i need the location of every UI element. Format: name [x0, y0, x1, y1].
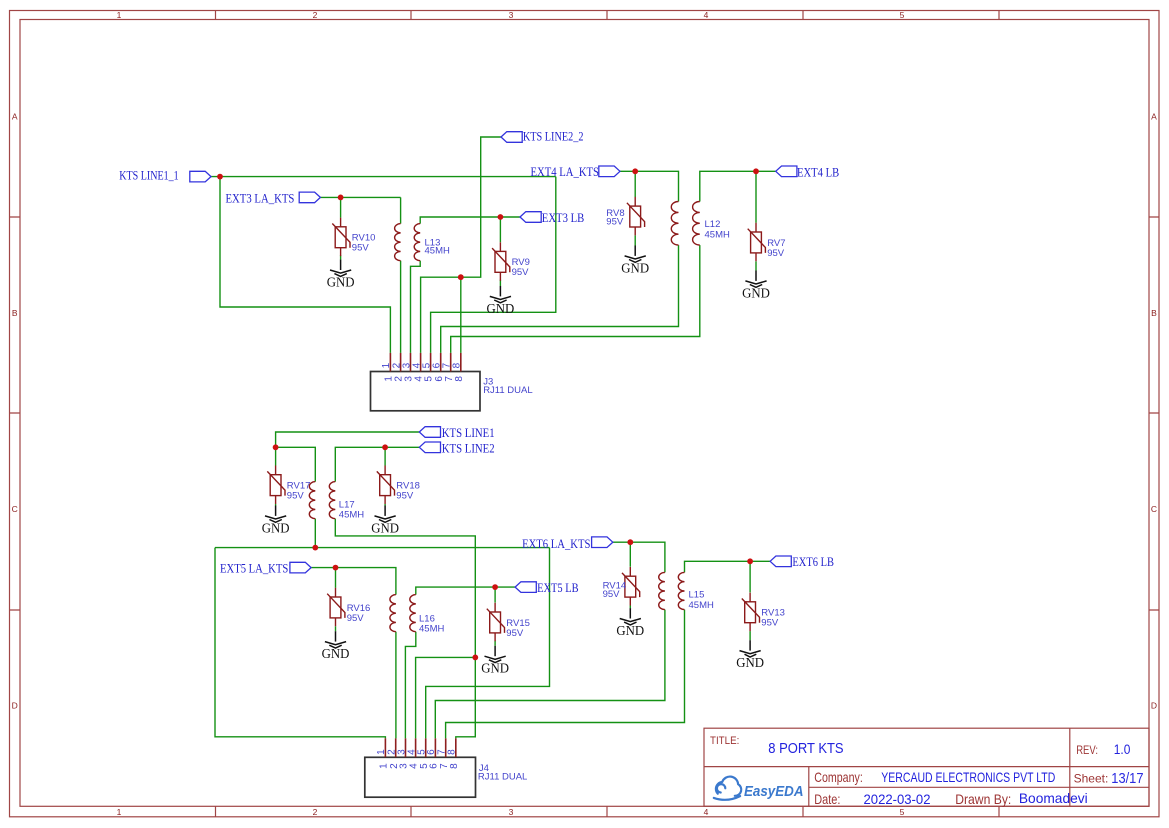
inductor L17 winding A: [309, 482, 315, 519]
ground RV7: [742, 271, 770, 301]
border column ticks bottom: [216, 806, 1000, 817]
wire net EXT3 LA_KTS: [320, 196, 400, 198]
connector J3 body: [371, 372, 481, 411]
net label KTS LINE1_1: [119, 167, 211, 182]
wire RV16 top stub: [335, 568, 337, 588]
junction KTS LINE2_2 / pin 8 branch: [458, 274, 464, 280]
ground RV15: [481, 646, 509, 676]
inductor L12 winding A: [671, 202, 678, 246]
svg-text:4: 4: [704, 807, 709, 817]
svg-text:EXT4 LA_KTS: EXT4 LA_KTS: [531, 164, 600, 179]
wire RV8 top stub: [634, 171, 636, 197]
wire net EXT5 LA_KTS: [311, 568, 396, 595]
wire L15 winding A to J4 pin 6: [435, 610, 665, 739]
label RV15 95V: [506, 618, 530, 639]
svg-text:95V: 95V: [767, 248, 785, 259]
label L13 45MH: [425, 237, 450, 256]
svg-text:EasyEDA: EasyEDA: [744, 784, 804, 800]
svg-text:Boomadevi: Boomadevi: [1019, 790, 1088, 806]
svg-text:EXT5 LB: EXT5 LB: [537, 580, 579, 595]
svg-text:95V: 95V: [606, 216, 624, 227]
inductor L16 winding A: [390, 595, 396, 632]
wire RV7 to ground: [755, 261, 757, 270]
svg-text:45MH: 45MH: [339, 510, 364, 521]
wire L17 winding B down to J4 pin 8 column: [335, 519, 475, 739]
net label EXT3 LA_KTS: [226, 190, 321, 205]
svg-text:4: 4: [704, 10, 709, 20]
junction J4 pin 4 / pin 8 branch: [472, 655, 478, 661]
wire RV8 to ground: [634, 235, 636, 245]
svg-text:RJ11 DUAL: RJ11 DUAL: [483, 385, 532, 396]
inductor L15 winding A: [659, 572, 665, 609]
label RV8 95V: [606, 208, 624, 228]
svg-text:A: A: [1151, 112, 1157, 122]
svg-text:Sheet:: Sheet:: [1074, 772, 1109, 785]
label RV7 95V: [767, 238, 785, 259]
svg-text:3: 3: [509, 10, 514, 20]
junction KTS LINE2 / RV18: [382, 444, 388, 450]
varistor RV9: [492, 242, 510, 280]
wire junction branch to J4 pin 4: [416, 657, 476, 738]
wire RV14 to ground: [629, 606, 631, 609]
inductor L13 winding B: [414, 224, 420, 261]
inductor L12 winding B: [693, 202, 700, 246]
svg-text:5: 5: [900, 807, 905, 817]
wire KTS LINE1_1 branch to J3 pin 5: [431, 177, 556, 353]
wire RV13 to ground: [749, 631, 751, 640]
svg-text:1.0: 1.0: [1114, 742, 1131, 757]
border row ticks right: [1149, 217, 1159, 610]
connector J3 pin stubs: [390, 353, 460, 372]
svg-text:3: 3: [509, 807, 514, 817]
svg-text:45MH: 45MH: [689, 600, 714, 611]
wire RV9 to ground: [499, 280, 501, 286]
svg-text:95V: 95V: [352, 243, 370, 254]
wire net KTS LINE1_1 main run: [211, 176, 556, 178]
wire RV14 top stub: [629, 542, 631, 567]
svg-text:2: 2: [313, 10, 318, 20]
varistor RV7: [748, 223, 766, 261]
wire net EXT5 LB: [416, 587, 515, 595]
wire RV15 to ground: [494, 641, 496, 646]
svg-text:EXT6 LB: EXT6 LB: [792, 554, 834, 569]
net label EXT3 LB: [520, 210, 585, 225]
ground RV18: [371, 506, 399, 536]
inductor L15 winding B: [678, 572, 684, 609]
svg-text:GND: GND: [322, 646, 350, 661]
varistor RV10: [332, 218, 350, 257]
svg-text:Drawn By:: Drawn By:: [955, 792, 1011, 807]
varistor RV18: [377, 466, 395, 505]
connector J4 pin stubs: [385, 738, 455, 757]
wire L16 winding A to J4 pin 2: [395, 632, 397, 739]
svg-text:KTS LINE2_2: KTS LINE2_2: [523, 129, 584, 144]
wire net KTS LINE2: [335, 447, 419, 481]
wire RV7 top stub: [755, 171, 757, 223]
wire net EXT4 LB: [700, 171, 776, 201]
wire L13 winding A to J3 pin 2: [400, 261, 402, 353]
junction EXT6 LA_KTS / RV14: [627, 539, 633, 545]
svg-text:95V: 95V: [347, 613, 365, 624]
junction EXT3 LA_KTS / RV10: [338, 195, 344, 201]
border column ticks top: [216, 11, 1000, 20]
inductor L13 winding A: [395, 224, 401, 261]
svg-text:95V: 95V: [506, 628, 524, 639]
svg-text:1: 1: [117, 807, 122, 817]
wire L17 winding A to bus junction: [314, 519, 316, 548]
svg-text:GND: GND: [487, 301, 515, 316]
svg-text:Date:: Date:: [814, 792, 840, 807]
net label EXT6 LB: [770, 554, 834, 569]
junction KTS LINE1 / RV17: [273, 444, 279, 450]
svg-text:GND: GND: [616, 623, 644, 638]
wire RV18 top stub: [384, 447, 386, 465]
svg-text:2022-03-02: 2022-03-02: [864, 791, 931, 807]
svg-text:95V: 95V: [603, 589, 621, 600]
wire KTS LINE2_2 branch to J3 pin 8: [460, 277, 462, 353]
varistor RV16: [327, 588, 345, 627]
wire net EXT6 LB: [685, 561, 771, 572]
label L16 45MH: [419, 614, 444, 635]
svg-text:KTS LINE2: KTS LINE2: [442, 440, 495, 455]
svg-text:GND: GND: [736, 655, 764, 670]
svg-text:GND: GND: [621, 260, 649, 275]
ground RV10: [327, 260, 355, 290]
J4 pin names inside: [379, 763, 460, 769]
svg-text:GND: GND: [327, 274, 355, 289]
wire RV13 top stub: [749, 561, 751, 592]
varistor RV8: [627, 197, 645, 236]
TITLEBLOCK: [704, 728, 1149, 807]
net label EXT5 LB: [515, 580, 579, 595]
svg-text:8: 8: [454, 376, 465, 382]
junction EXT4 LB / RV7: [753, 168, 759, 174]
wire RV18 to ground: [384, 504, 386, 506]
svg-text:B: B: [1151, 308, 1157, 318]
J3 pin names inside: [384, 376, 465, 382]
wire KTS LINE1 to L17 winding A: [276, 447, 316, 481]
svg-text:GND: GND: [742, 285, 770, 300]
varistor RV15: [487, 603, 505, 642]
label RV14 95V: [603, 580, 627, 600]
junction EXT5 LB / RV15: [492, 584, 498, 590]
svg-text:GND: GND: [262, 520, 290, 535]
label J4 RJ11 DUAL: [478, 763, 527, 783]
net label EXT4 LB: [776, 165, 840, 180]
net label EXT5 LA_KTS: [220, 561, 311, 576]
junction EXT3 LB / RV9: [498, 214, 504, 220]
wire bus run at y 547.6: [215, 547, 550, 549]
label RV9 95V: [512, 257, 530, 278]
label RV17 95V: [287, 481, 311, 502]
connector J4 body: [365, 757, 476, 797]
wire bus to J4 pin 5: [426, 548, 550, 739]
svg-text:D: D: [1151, 701, 1157, 711]
svg-text:C: C: [1151, 504, 1157, 514]
title block outline: [704, 728, 1149, 806]
wire RV10 top stub: [340, 197, 342, 217]
J3 pin numbers outside: [381, 362, 462, 368]
svg-text:5: 5: [900, 10, 905, 20]
wire L12 winding A to J3 pin 6: [441, 245, 679, 353]
label J3 RJ11 DUAL: [483, 377, 532, 397]
varistor RV14: [622, 567, 640, 606]
svg-text:B: B: [12, 308, 18, 318]
wire KTS LINE1_1 branch to J3 pin 1: [220, 177, 390, 353]
svg-text:1: 1: [117, 10, 122, 20]
svg-text:8: 8: [447, 749, 458, 755]
inductor L17 winding B: [329, 482, 335, 519]
wire L16 winding B jog to J4 pin 3: [405, 632, 415, 739]
svg-text:TITLE:: TITLE:: [710, 735, 739, 747]
label RV18 95V: [396, 481, 420, 502]
svg-text:13/17: 13/17: [1111, 771, 1143, 787]
svg-text:45MH: 45MH: [705, 229, 730, 240]
svg-text:95V: 95V: [761, 618, 779, 629]
svg-text:95V: 95V: [396, 491, 414, 502]
wire net EXT4 LA_KTS: [620, 171, 679, 201]
wire EXT3 LA_KTS into L13 winding A: [400, 197, 402, 223]
inductor L16 winding B: [410, 595, 416, 632]
row letters left: [12, 112, 18, 711]
column numbers bottom: [117, 807, 905, 817]
ground RV8: [621, 246, 649, 276]
svg-text:YERCAUD ELECTRONICS PVT LTD: YERCAUD ELECTRONICS PVT LTD: [881, 769, 1055, 785]
junction EXT5 LA_KTS / RV16: [333, 565, 339, 571]
EasyEDA logo cloud: [714, 777, 741, 800]
ground RV16: [322, 631, 350, 661]
varistor RV17: [267, 466, 285, 505]
wire RV16 to ground: [335, 626, 337, 631]
wire RV17 top stub: [275, 447, 277, 465]
title block divider lines: [704, 728, 1149, 806]
wire RV10 to ground: [340, 255, 342, 260]
svg-text:8: 8: [449, 763, 460, 769]
svg-text:EXT3 LA_KTS: EXT3 LA_KTS: [226, 190, 295, 205]
label RV13 95V: [761, 608, 785, 629]
svg-text:45MH: 45MH: [425, 246, 450, 257]
svg-text:8: 8: [452, 362, 463, 368]
wire bus to J4 pin 1: [215, 548, 385, 739]
border row ticks left: [10, 217, 21, 610]
label RV16 95V: [347, 603, 371, 624]
wire net KTS LINE2_2 to J3 pin 4: [421, 137, 501, 353]
varistor RV13: [742, 593, 760, 632]
svg-text:REV:: REV:: [1076, 745, 1098, 757]
junction EXT4 LA_KTS / RV8: [632, 168, 638, 174]
ground RV9: [487, 286, 515, 316]
wire RV17 to ground: [275, 504, 277, 506]
net label KTS LINE2: [419, 440, 494, 455]
wire net EXT6 LA_KTS: [613, 542, 665, 572]
junction bus / L17 winding A: [312, 545, 318, 551]
row letters right: [1151, 112, 1157, 711]
ground RV14: [616, 608, 644, 638]
svg-text:EXT6 LA_KTS: EXT6 LA_KTS: [522, 536, 590, 551]
svg-text:45MH: 45MH: [419, 624, 444, 635]
junction KTS LINE1_1: [217, 174, 223, 180]
net label EXT4 LA_KTS: [531, 164, 621, 179]
svg-text:Company:: Company:: [814, 770, 863, 785]
wire RV15 top stub: [494, 587, 496, 603]
svg-text:D: D: [12, 701, 18, 711]
net label KTS LINE2_2: [501, 129, 584, 144]
svg-text:GND: GND: [371, 520, 399, 535]
label RV10 95V: [352, 233, 376, 254]
svg-text:2: 2: [313, 807, 318, 817]
wire L15 winding B to J4 pin 7: [446, 610, 685, 739]
wire L13 winding B jog to J3 pin 3: [411, 261, 421, 353]
svg-text:95V: 95V: [287, 491, 305, 502]
wire net EXT3 LB: [420, 217, 520, 224]
junction EXT6 LB / RV13: [747, 558, 753, 564]
net label KTS LINE1: [419, 425, 494, 440]
net label EXT6 LA_KTS: [522, 536, 613, 551]
wire RV9 top stub: [499, 217, 501, 242]
svg-text:8 PORT KTS: 8 PORT KTS: [768, 740, 843, 757]
J4 pin numbers outside: [376, 749, 457, 755]
svg-text:EXT4 LB: EXT4 LB: [797, 165, 839, 180]
label L15 45MH: [689, 590, 714, 611]
label L17 45MH: [339, 500, 364, 521]
svg-text:GND: GND: [481, 661, 509, 676]
ground RV17: [262, 506, 290, 536]
svg-text:EXT3 LB: EXT3 LB: [542, 210, 585, 225]
svg-text:KTS LINE1: KTS LINE1: [442, 425, 495, 440]
column numbers top: [117, 10, 905, 20]
svg-text:A: A: [12, 112, 18, 122]
svg-text:KTS LINE1_1: KTS LINE1_1: [119, 167, 178, 182]
label L12 45MH: [705, 219, 730, 240]
svg-text:95V: 95V: [512, 267, 530, 278]
wire L12 winding B to J3 pin 7: [451, 245, 700, 353]
wire net KTS LINE1: [276, 432, 420, 447]
PARTS: [119, 129, 839, 798]
ground RV13: [736, 640, 764, 670]
svg-text:EXT5 LA_KTS: EXT5 LA_KTS: [220, 561, 288, 576]
svg-text:C: C: [12, 504, 18, 514]
svg-text:RJ11 DUAL: RJ11 DUAL: [478, 772, 527, 783]
